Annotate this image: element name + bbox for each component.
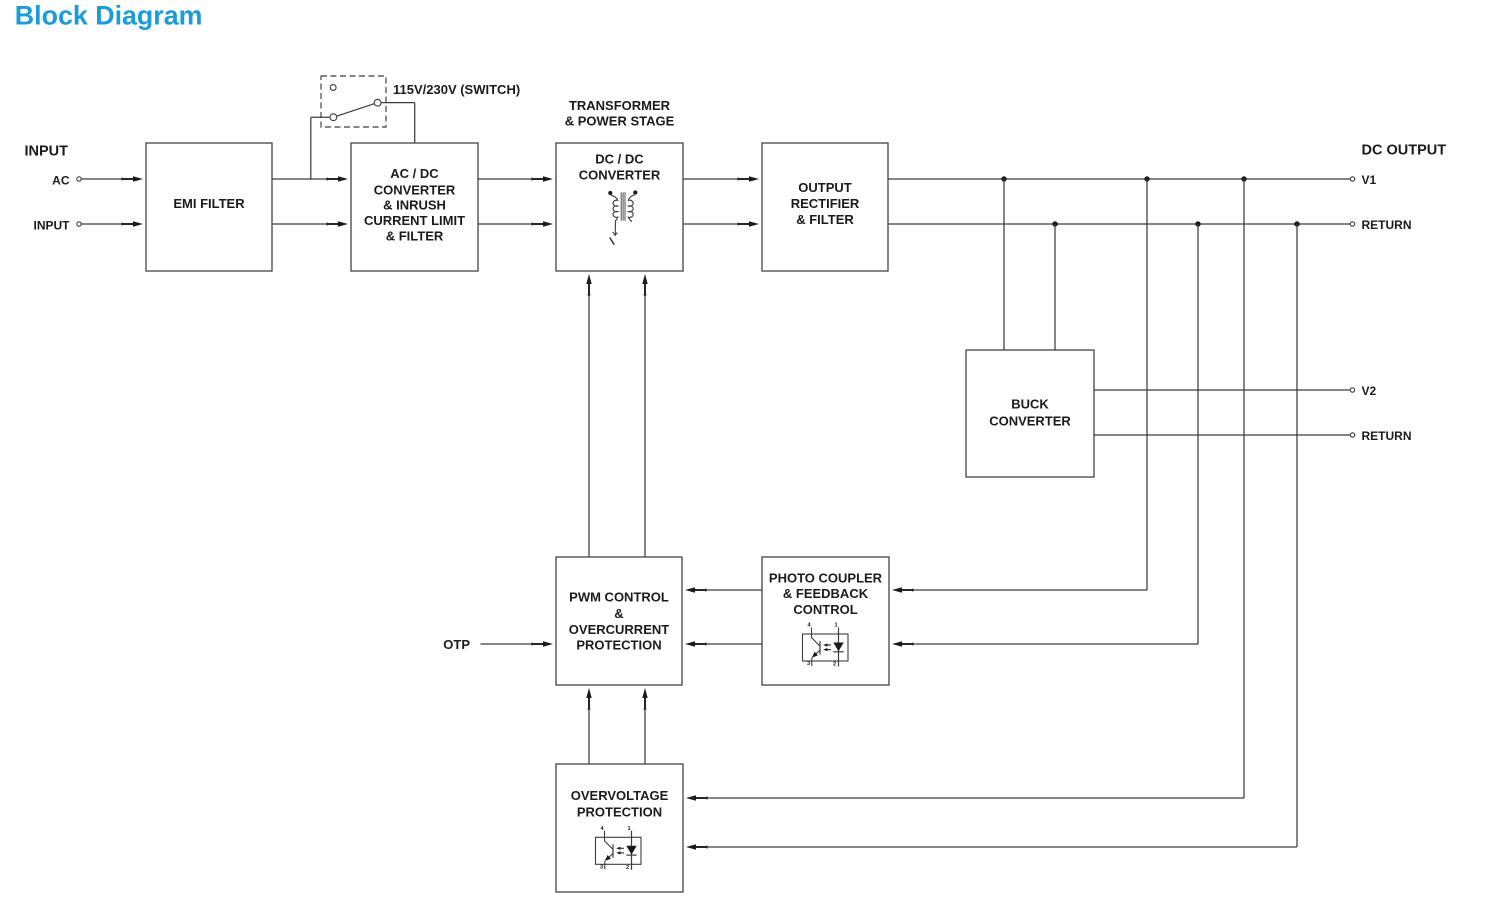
node on V1 to buck	[1001, 176, 1006, 181]
wire PWM to DC/DC (right)	[642, 274, 647, 557]
wire PWM to DC/DC (left)	[586, 274, 591, 557]
svg-text:EMI FILTER: EMI FILTER	[173, 196, 245, 211]
node on V1 to overvoltage	[1241, 176, 1246, 181]
wire V1 down to buck	[1003, 179, 1005, 350]
svg-text:PHOTO COUPLER: PHOTO COUPLER	[769, 570, 883, 585]
svg-text:CONVERTER: CONVERTER	[989, 414, 1071, 429]
switch contact right	[374, 99, 381, 106]
svg-text:115V/230V (SWITCH): 115V/230V (SWITCH)	[393, 82, 520, 97]
wire RETURN rail	[888, 223, 1350, 225]
transformer T1 (in DC/DC block)	[608, 190, 637, 244]
terminal AC	[52, 173, 81, 187]
wire EMI to AC/DC (top)	[272, 176, 348, 181]
svg-text:INPUT: INPUT	[34, 218, 71, 232]
wire V1 sense to overvoltage	[686, 179, 1244, 801]
svg-text:OVERCURRENT: OVERCURRENT	[569, 622, 669, 637]
svg-text:& FEEDBACK: & FEEDBACK	[783, 586, 869, 601]
svg-text:Block Diagram: Block Diagram	[15, 1, 203, 31]
svg-text:CURRENT LIMIT: CURRENT LIMIT	[364, 213, 465, 228]
wire RETURN feedback to photo coupler	[892, 224, 1198, 647]
svg-text:DC OUTPUT: DC OUTPUT	[1362, 143, 1447, 159]
optocoupler U1 (in photo coupler block)	[803, 623, 849, 668]
wire DC/DC to rectifier (top)	[683, 176, 759, 181]
block PWM CONTROL	[556, 557, 682, 685]
svg-text:RECTIFIER: RECTIFIER	[791, 196, 860, 211]
wire V2 rail	[1094, 389, 1350, 391]
svg-text:& INRUSH: & INRUSH	[383, 198, 446, 213]
svg-text:3: 3	[600, 864, 603, 870]
svg-text:CONVERTER: CONVERTER	[579, 168, 661, 183]
svg-text:V1: V1	[1362, 173, 1377, 187]
wire V1 feedback to photo coupler	[892, 179, 1147, 593]
switch contact lower	[330, 114, 337, 121]
svg-text:& FILTER: & FILTER	[386, 229, 444, 244]
svg-text:PROTECTION: PROTECTION	[577, 805, 662, 820]
svg-text:INPUT: INPUT	[25, 144, 69, 160]
svg-text:2: 2	[833, 662, 836, 668]
svg-text:OUTPUT: OUTPUT	[798, 180, 852, 195]
svg-text:4: 4	[601, 826, 605, 832]
wire OTP to PWM	[481, 641, 554, 646]
svg-text:OVERVOLTAGE: OVERVOLTAGE	[571, 788, 669, 803]
wire switch to AC/DC box	[381, 103, 415, 143]
svg-text:3: 3	[807, 661, 810, 667]
switch dashed enclosure	[321, 76, 386, 127]
optocoupler U2 (in overvoltage block)	[596, 826, 642, 871]
wire photo coupler to PWM (top)	[685, 587, 762, 592]
block DC/DC converter	[556, 143, 683, 271]
wire INPUT arrow	[82, 221, 144, 226]
switch contact upper	[330, 85, 336, 91]
wire RETURN down to buck	[1054, 224, 1056, 350]
svg-text:RETURN: RETURN	[1362, 218, 1412, 232]
svg-text:OTP: OTP	[443, 637, 470, 652]
node on V1 to photo coupler	[1144, 176, 1149, 181]
svg-text:AC: AC	[52, 173, 70, 187]
svg-text:V2: V2	[1362, 384, 1377, 398]
wire RETURN2 rail	[1094, 434, 1350, 436]
terminal V1	[1350, 173, 1376, 187]
node on RETURN to overvoltage	[1294, 221, 1299, 226]
block EMI FILTER	[146, 143, 272, 271]
terminal RETURN (bottom)	[1350, 429, 1411, 443]
block OVERVOLTAGE PROTECTION	[556, 764, 683, 892]
svg-text:PROTECTION: PROTECTION	[576, 638, 661, 653]
terminal V2	[1350, 384, 1376, 398]
label OTP	[443, 637, 470, 652]
wire AC/DC to DC/DC (top)	[478, 176, 553, 181]
label DC OUTPUT (right header)	[1362, 143, 1447, 159]
wire AC/DC to DC/DC (bottom)	[478, 221, 553, 226]
block BUCK CONVERTER	[966, 350, 1094, 477]
block PHOTO COUPLER	[762, 557, 889, 685]
wire EMI to AC/DC (bottom)	[272, 221, 348, 226]
svg-text:DC / DC: DC / DC	[595, 152, 644, 167]
svg-text:AC / DC: AC / DC	[390, 166, 439, 181]
wire RETURN sense to overvoltage	[686, 224, 1297, 850]
terminal INPUT	[34, 218, 82, 232]
wire switch tap to AC line	[311, 117, 331, 179]
wire photo coupler to PWM (bottom)	[685, 641, 762, 646]
svg-text:1: 1	[835, 623, 838, 629]
label 115V/230V (SWITCH)	[393, 82, 520, 97]
svg-text:BUCK: BUCK	[1011, 397, 1049, 412]
svg-text:4: 4	[808, 623, 812, 629]
label INPUT (left header)	[25, 144, 69, 160]
svg-text:&: &	[614, 606, 623, 621]
block OUTPUT RECTIFIER & FILTER	[762, 143, 888, 271]
svg-text:RETURN: RETURN	[1362, 429, 1412, 443]
wire overvoltage to PWM (left)	[586, 688, 591, 764]
svg-text:CONVERTER: CONVERTER	[374, 183, 456, 198]
wire overvoltage to PWM (right)	[642, 688, 647, 764]
switch lever	[337, 104, 375, 117]
wire V1 rail	[888, 178, 1350, 180]
wire DC/DC to rectifier (bottom)	[683, 221, 759, 226]
svg-text:PWM CONTROL: PWM CONTROL	[569, 590, 669, 605]
title: Block Diagram	[15, 1, 203, 31]
wire AC input arrow	[82, 176, 144, 181]
terminal RETURN (top)	[1350, 218, 1411, 232]
svg-text:& POWER STAGE: & POWER STAGE	[565, 114, 675, 129]
node on RETURN to photo coupler	[1195, 221, 1200, 226]
svg-text:2: 2	[626, 865, 629, 871]
node on RETURN to buck	[1052, 221, 1057, 226]
block AC/DC converter	[351, 143, 478, 271]
svg-text:1: 1	[628, 826, 631, 832]
svg-text:CONTROL: CONTROL	[793, 602, 857, 617]
svg-text:TRANSFORMER: TRANSFORMER	[569, 98, 671, 113]
svg-text:& FILTER: & FILTER	[796, 212, 854, 227]
label TRANSFORMER & POWER STAGE	[565, 98, 675, 129]
